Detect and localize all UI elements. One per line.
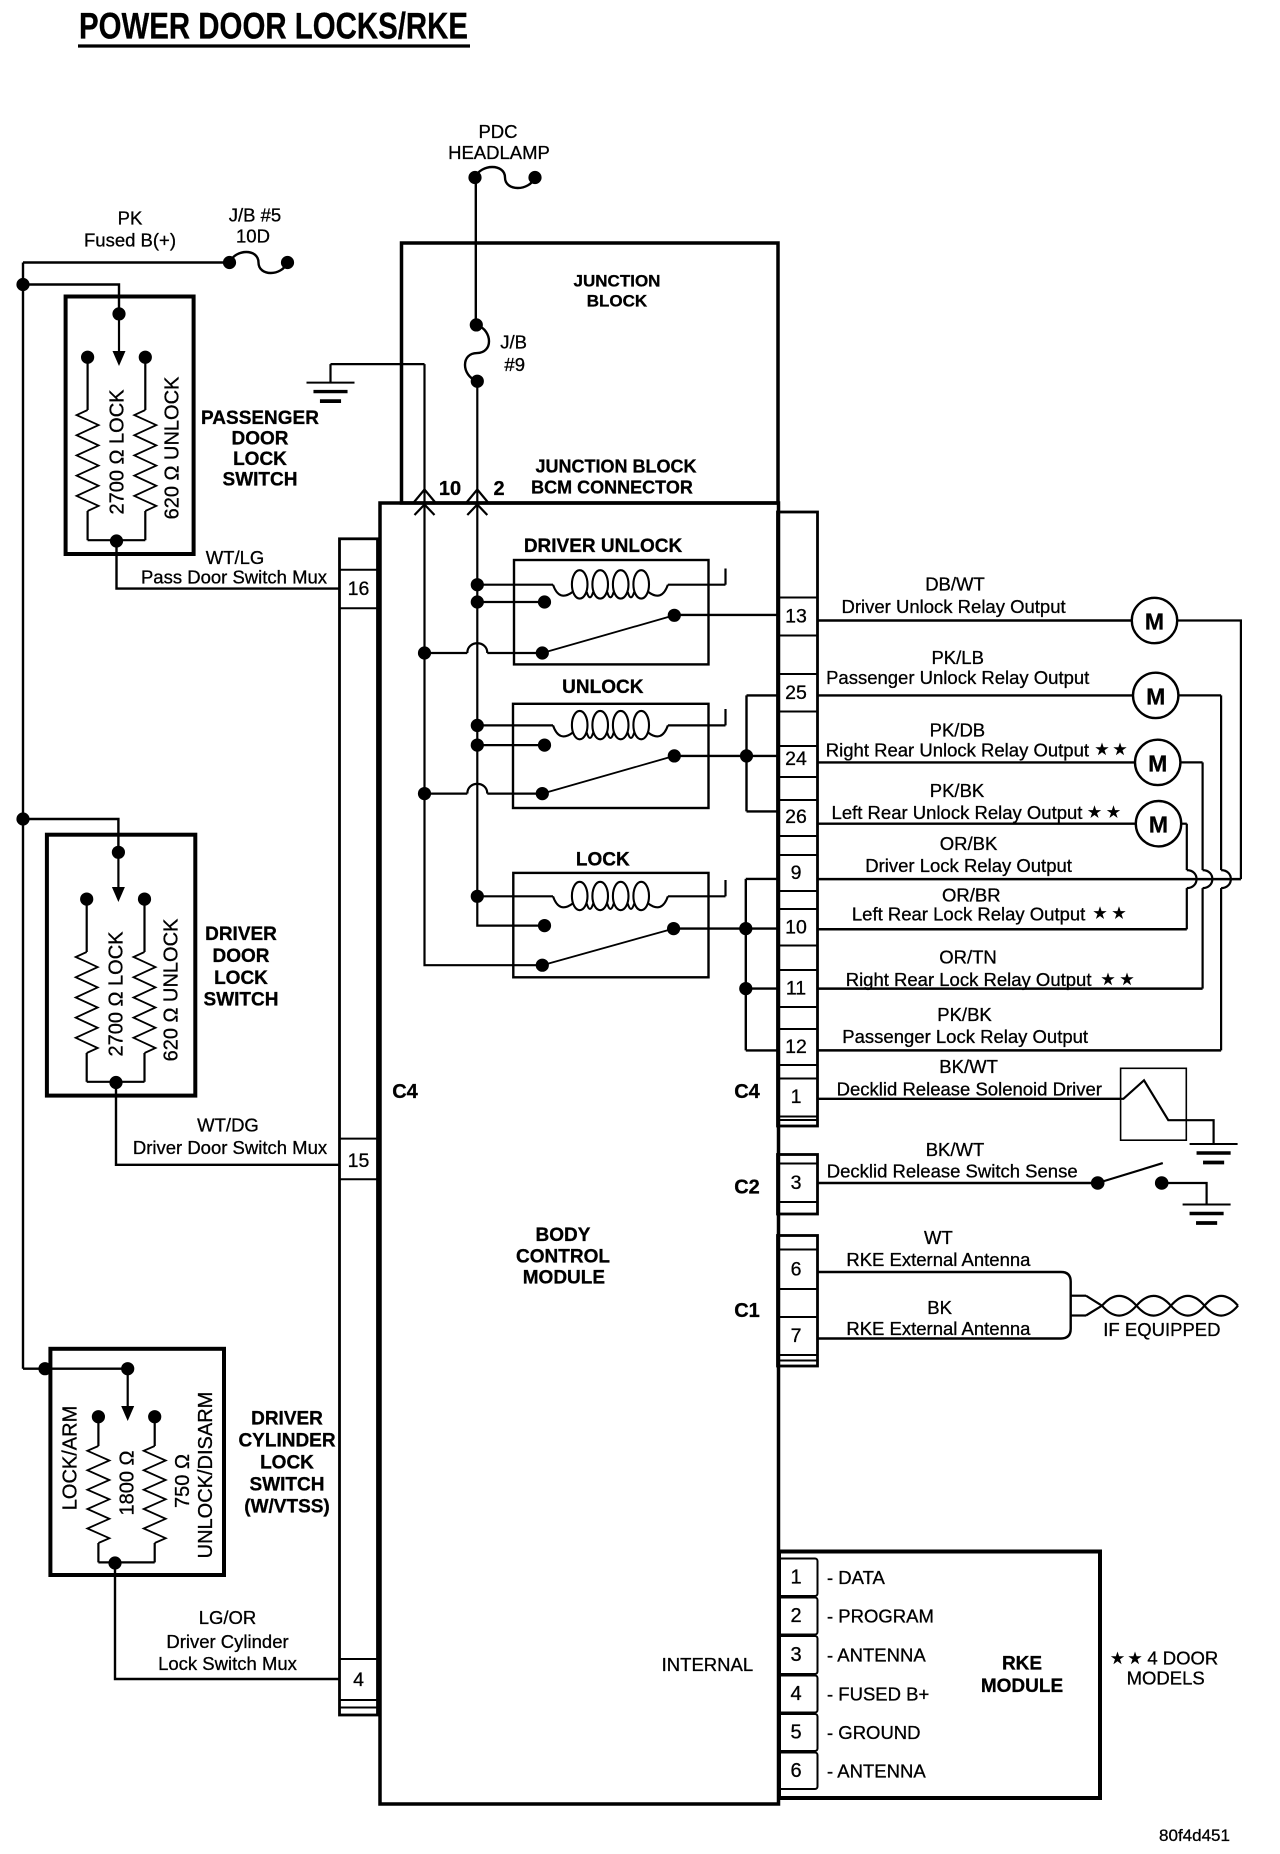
wire antenna loop pins 6-7 <box>818 1272 1071 1339</box>
label JUNCTION BLOCK BCM CONNECTOR <box>531 457 696 498</box>
pin 6 box (BCM C1) <box>778 1250 818 1290</box>
wire U2 output <box>674 755 746 757</box>
wire U1 pivot feed with hop over bus 2 <box>425 643 543 653</box>
svg-text:POWER DOOR LOCKS/RKE: POWER DOOR LOCKS/RKE <box>79 6 468 47</box>
node U2 pivot tap <box>418 787 431 800</box>
svg-text:7: 7 <box>791 1325 802 1347</box>
wire ground bus to pin 10 arrow <box>423 364 425 503</box>
svg-text:Driver Unlock Relay Output: Driver Unlock Relay Output <box>842 596 1066 617</box>
svg-text:PDC: PDC <box>478 121 517 142</box>
wire pin 13 to driver unlock motor <box>818 619 1132 621</box>
label DRIVER CYLINDER LOCK SWITCH (W/VTSS) <box>238 1409 335 1518</box>
label BODY CONTROL MODULE <box>516 1225 610 1288</box>
wiper arrow cylinder switch <box>121 1369 134 1421</box>
svg-text:Right Rear Lock Relay Output: Right Rear Lock Relay Output <box>846 969 1092 990</box>
svg-text:M: M <box>1146 683 1165 709</box>
node cylinder unlock resistor top <box>148 1410 161 1423</box>
pin 4 box <box>340 1659 378 1700</box>
svg-text:DB/WT: DB/WT <box>925 574 985 595</box>
label OR/BR <box>852 885 1085 925</box>
label OR/BK <box>865 833 1072 876</box>
switch box driver cylinder lock switch <box>50 1349 224 1575</box>
svg-text:- FUSED B+: - FUSED B+ <box>827 1684 929 1705</box>
wire pin 26 to left rear unlock motor <box>818 823 1136 825</box>
svg-text:INTERNAL: INTERNAL <box>662 1654 754 1675</box>
pin 1 box (BCM C4) <box>778 1079 818 1117</box>
node passenger unlock resistor top <box>139 351 152 364</box>
label PK/BK passenger lock <box>842 1004 1088 1047</box>
connector arrow 10 <box>414 478 461 515</box>
label 4 DOOR MODELS <box>1127 1648 1219 1689</box>
svg-text:C1: C1 <box>734 1300 760 1322</box>
svg-text:BK/WT: BK/WT <box>939 1056 998 1077</box>
label C4 right <box>734 1081 760 1103</box>
divider left column bottom <box>340 1707 378 1709</box>
svg-text:Left Rear Lock Relay Output: Left Rear Lock Relay Output <box>852 904 1085 925</box>
svg-text:DOOR: DOOR <box>213 946 270 967</box>
motor M3 right rear door lock motor <box>1135 740 1180 785</box>
svg-text:750 Ω: 750 Ω <box>172 1454 194 1508</box>
label Lock Switch Mux <box>158 1653 298 1674</box>
value label 620 ohm UNLOCK <box>162 376 184 519</box>
svg-text:BK: BK <box>927 1297 952 1318</box>
pin 9 box (BCM C4) <box>778 855 818 891</box>
label LG/OR <box>199 1607 257 1628</box>
svg-text:LOCK: LOCK <box>214 968 268 989</box>
divider C1 column bottom <box>778 1360 818 1362</box>
wire twisted pair stubs <box>1071 1296 1086 1316</box>
svg-text:5: 5 <box>790 1722 801 1744</box>
svg-text:IF EQUIPPED: IF EQUIPPED <box>1103 1319 1220 1340</box>
svg-text:RKE External Antenna: RKE External Antenna <box>846 1249 1031 1270</box>
node bus to driver switch <box>16 812 29 825</box>
svg-text:Passenger Unlock Relay Output: Passenger Unlock Relay Output <box>826 667 1089 688</box>
svg-text:3: 3 <box>790 1644 801 1666</box>
svg-text:LOCK: LOCK <box>260 1453 314 1474</box>
value label 620 ohm UNLOCK driver <box>161 918 183 1061</box>
svg-text:PASSENGER: PASSENGER <box>201 408 319 429</box>
node driver lock resistor top <box>80 893 93 906</box>
node U2 contact tap <box>471 739 484 752</box>
wire pin 3 decklid release switch sense <box>818 1182 1098 1184</box>
svg-text:SWITCH: SWITCH <box>204 989 279 1010</box>
wire WT/LG pass door switch mux <box>117 541 340 589</box>
relay U3 LOCK box <box>513 850 708 978</box>
wire M1 to pin 9 loop <box>1177 621 1241 880</box>
node U1 coil tap <box>471 578 484 591</box>
svg-text:SWITCH: SWITCH <box>250 1475 325 1496</box>
svg-text:LG/OR: LG/OR <box>199 1607 257 1628</box>
wire switch to ground <box>1162 1183 1207 1205</box>
svg-text:25: 25 <box>785 682 807 704</box>
label WT/LG <box>206 547 265 568</box>
svg-text:JUNCTION: JUNCTION <box>574 272 661 291</box>
svg-text:Driver Cylinder: Driver Cylinder <box>166 1631 288 1652</box>
wire pin 10 left rear lock relay output <box>818 928 1187 931</box>
node U1 contact tap <box>471 595 484 608</box>
switch arm relay U1 <box>536 609 681 660</box>
svg-text:DRIVER: DRIVER <box>251 1409 323 1430</box>
label DB/WT <box>842 574 1066 617</box>
switch decklid release <box>1091 1163 1169 1190</box>
svg-text:PK/BK: PK/BK <box>930 780 985 801</box>
connector column C2 outline <box>778 1155 818 1215</box>
svg-text:Pass Door Switch Mux: Pass Door Switch Mux <box>141 567 328 588</box>
label C1 right <box>734 1300 760 1322</box>
wire U2 pivot feed with hop over bus 2 <box>425 784 543 794</box>
motor M1 driver door lock motor <box>1132 598 1177 643</box>
ground G3 (decklid switch) <box>1183 1205 1231 1224</box>
pin 25 box (BCM C4) <box>778 674 818 712</box>
value label UNLOCK/DISARM <box>195 1392 217 1559</box>
svg-text:2700 Ω LOCK: 2700 Ω LOCK <box>106 931 128 1057</box>
switch arm relay U2 <box>536 749 681 800</box>
wire pin 24 to right rear unlock motor <box>818 761 1136 763</box>
wire U3 pivot feed <box>425 964 543 965</box>
stars 4 door models <box>1111 1652 1142 1665</box>
svg-text:RKE External Antenna: RKE External Antenna <box>846 1318 1031 1339</box>
svg-text:C2: C2 <box>734 1177 760 1199</box>
svg-text:10: 10 <box>439 478 461 500</box>
svg-text:Decklid Release Solenoid Drive: Decklid Release Solenoid Driver <box>837 1079 1102 1100</box>
switch arm relay U3 <box>536 922 681 972</box>
node bracket unlock junction <box>740 749 753 762</box>
stars left rear unlock <box>1088 805 1120 818</box>
svg-text:MODELS: MODELS <box>1127 1668 1205 1689</box>
wire PK feed horizontal <box>23 261 230 263</box>
stars right rear lock <box>1101 973 1133 986</box>
svg-text:PK: PK <box>118 208 143 229</box>
label PK/BK left rear unlock <box>832 780 1083 823</box>
node cylinder switch entry <box>38 1362 51 1375</box>
pin 15 box <box>340 1139 378 1180</box>
svg-text:JUNCTION BLOCK: JUNCTION BLOCK <box>536 457 697 477</box>
label J/B #9 <box>500 332 527 376</box>
node passenger switch feed <box>112 307 125 320</box>
twisted pair antenna <box>1086 1296 1238 1316</box>
inline connector J/B #5 <box>223 252 294 273</box>
svg-text:1: 1 <box>790 1566 801 1588</box>
wire M2 to pin 12 with hop <box>1178 695 1230 1050</box>
node passenger resistors junction <box>110 534 123 547</box>
node bracket lock junction pin11 <box>739 982 752 995</box>
svg-text:OR/TN: OR/TN <box>939 947 997 968</box>
part number 80f4d451 <box>1159 1826 1230 1845</box>
RKE pin 6 - ANTENNA <box>779 1753 927 1790</box>
relay U1 coil <box>477 569 725 599</box>
wiper arrow passenger switch <box>113 314 126 366</box>
svg-text:620 Ω UNLOCK: 620 Ω UNLOCK <box>162 376 184 519</box>
label BK/WT solenoid <box>837 1056 1102 1100</box>
svg-text:LOCK: LOCK <box>576 850 630 871</box>
RKE pin 2 - PROGRAM <box>779 1598 934 1635</box>
svg-text:Passenger Lock Relay Output: Passenger Lock Relay Output <box>842 1026 1088 1047</box>
svg-text:M: M <box>1149 812 1168 838</box>
relay U1 DRIVER UNLOCK box <box>514 536 709 664</box>
svg-text:DRIVER: DRIVER <box>205 924 277 945</box>
resistor 2700 ohm LOCK (passenger) <box>77 357 117 540</box>
label C4 left <box>392 1081 418 1103</box>
pin 7 box (BCM C1) <box>778 1317 818 1355</box>
connector column C1 outline <box>778 1236 818 1367</box>
node cylinder resistors junction <box>108 1556 121 1569</box>
svg-text:LOCK/ARM: LOCK/ARM <box>59 1406 81 1510</box>
svg-text:M: M <box>1148 750 1167 776</box>
svg-text:10: 10 <box>785 917 807 939</box>
relay U2 UNLOCK box <box>513 677 709 808</box>
value label 2700 ohm LOCK driver <box>106 931 128 1057</box>
node U3 coil tap <box>471 890 484 903</box>
svg-text:1: 1 <box>791 1086 802 1108</box>
wiper arrow driver switch <box>112 852 125 902</box>
svg-text:WT/DG: WT/DG <box>197 1115 259 1136</box>
svg-text:- ANTENNA: - ANTENNA <box>827 1760 926 1781</box>
pin 11 box (BCM C4) <box>778 970 818 1007</box>
wire M4 to pin 10 with hop <box>1181 824 1196 930</box>
ground G2 (solenoid) <box>1190 1144 1238 1163</box>
node cylinder switch feed <box>121 1362 134 1375</box>
label IF EQUIPPED <box>1103 1319 1220 1340</box>
svg-text:BODY: BODY <box>536 1225 591 1246</box>
svg-text:#9: #9 <box>504 354 525 375</box>
resistor 2700 ohm LOCK (driver) <box>76 899 116 1082</box>
label DRIVER DOOR LOCK SWITCH <box>204 924 279 1011</box>
label Driver Door Switch Mux <box>133 1137 328 1158</box>
wire pin 1 decklid release solenoid driver <box>818 1098 1121 1100</box>
svg-text:- GROUND: - GROUND <box>827 1722 921 1743</box>
svg-text:2: 2 <box>790 1605 801 1627</box>
RKE pin 5 - GROUND <box>779 1714 921 1751</box>
bracket unlock outputs <box>747 695 778 811</box>
svg-text:Lock Switch Mux: Lock Switch Mux <box>158 1653 298 1674</box>
pin 12 box (BCM C4) <box>778 1029 818 1065</box>
stars right rear unlock <box>1095 743 1126 756</box>
node passenger lock resistor top <box>81 351 94 364</box>
svg-text:26: 26 <box>785 806 807 828</box>
wire pin 12 passenger lock relay output <box>818 1049 1222 1052</box>
label INTERNAL <box>662 1654 754 1675</box>
svg-text:Driver Door Switch Mux: Driver Door Switch Mux <box>133 1137 328 1158</box>
svg-text:80f4d451: 80f4d451 <box>1159 1826 1230 1845</box>
svg-text:4 DOOR: 4 DOOR <box>1147 1648 1218 1669</box>
label Pass Door Switch Mux <box>141 567 328 588</box>
pin 3 box (BCM C2) <box>778 1164 818 1203</box>
svg-text:13: 13 <box>785 606 807 628</box>
svg-text:2700 Ω LOCK: 2700 Ω LOCK <box>107 389 129 515</box>
label J/B #5 10D <box>229 205 281 247</box>
svg-text:BLOCK: BLOCK <box>587 292 648 311</box>
svg-text:MODULE: MODULE <box>523 1267 605 1288</box>
wire branch to passenger door lock switch <box>23 285 119 314</box>
node cylinder lock resistor top <box>92 1410 105 1423</box>
svg-text:16: 16 <box>348 578 370 600</box>
resistor 1800 ohm LOCK/ARM <box>87 1417 115 1563</box>
svg-text:UNLOCK/DISARM: UNLOCK/DISARM <box>195 1392 217 1559</box>
svg-text:9: 9 <box>791 862 802 884</box>
wire branch to driver cylinder lock switch <box>23 1367 128 1369</box>
svg-text:OR/BR: OR/BR <box>942 885 1001 906</box>
wire pin 11 right rear lock relay output <box>818 987 1203 990</box>
pin 13 box (BCM C4) <box>778 598 818 636</box>
svg-text:C4: C4 <box>392 1081 418 1103</box>
wire WT/DG driver door switch mux <box>116 1083 340 1165</box>
svg-text:24: 24 <box>785 748 807 770</box>
wire U3 fixed contact <box>477 896 551 932</box>
svg-text:CONTROL: CONTROL <box>516 1247 610 1268</box>
svg-text:J/B: J/B <box>500 332 527 353</box>
pin 10 box (BCM C4) <box>778 909 818 946</box>
svg-text:Left Rear Unlock Relay Output: Left Rear Unlock Relay Output <box>832 802 1083 823</box>
resistor 620 ohm UNLOCK (passenger) <box>117 357 157 540</box>
svg-text:4: 4 <box>790 1683 801 1705</box>
svg-text:Decklid Release Switch Sense: Decklid Release Switch Sense <box>827 1161 1078 1182</box>
svg-text:2: 2 <box>493 478 504 500</box>
svg-text:Fused B(+): Fused B(+) <box>84 230 176 251</box>
label RKE MODULE <box>981 1654 1063 1698</box>
svg-text:CYLINDER: CYLINDER <box>238 1431 335 1452</box>
resistor 750 ohm UNLOCK/DISARM <box>115 1417 166 1563</box>
svg-text:BCM CONNECTOR: BCM CONNECTOR <box>531 478 693 498</box>
svg-text:HEADLAMP: HEADLAMP <box>448 142 550 163</box>
RKE pin 3 - ANTENNA <box>779 1636 927 1674</box>
svg-text:12: 12 <box>785 1036 807 1058</box>
pin 26 box (BCM C4) <box>778 800 818 836</box>
switch box passenger door lock switch <box>66 297 194 555</box>
svg-text:PK/BK: PK/BK <box>937 1004 992 1025</box>
label JUNCTION BLOCK <box>574 272 661 311</box>
svg-text:OR/BK: OR/BK <box>940 833 998 854</box>
motor M4 left rear door lock motor <box>1136 801 1181 846</box>
right connector column C4 outline <box>778 512 818 1126</box>
svg-text:1800 Ω: 1800 Ω <box>117 1450 139 1515</box>
label OR/TN <box>846 947 1092 991</box>
connector arrow 2 <box>467 478 505 515</box>
junction block box <box>402 243 779 503</box>
svg-text:SWITCH: SWITCH <box>223 470 298 491</box>
value label LOCK/ARM <box>59 1406 81 1510</box>
svg-text:- PROGRAM: - PROGRAM <box>827 1606 934 1627</box>
relay U3 coil <box>477 880 725 910</box>
wire U1 fixed contact <box>477 595 551 608</box>
relay U2 coil <box>477 709 725 739</box>
wire U2 fixed contact <box>477 739 551 752</box>
svg-text:MODULE: MODULE <box>981 1676 1063 1697</box>
svg-text:DRIVER UNLOCK: DRIVER UNLOCK <box>524 536 683 557</box>
svg-text:M: M <box>1145 609 1164 635</box>
wire left B(+) bus vertical <box>22 263 24 1369</box>
svg-text:(W/VTSS): (W/VTSS) <box>244 1497 330 1518</box>
wire M3 to pin 11 with hop <box>1180 762 1212 988</box>
ground G1 (junction block) <box>307 364 425 401</box>
pin 16 box <box>340 570 378 609</box>
label PASSENGER DOOR LOCK SWITCH <box>201 408 319 491</box>
pin 24 box (BCM C4) <box>778 746 818 777</box>
svg-text:11: 11 <box>786 978 806 1000</box>
wire U1 output to pin 13 <box>674 614 777 616</box>
svg-text:6: 6 <box>791 1259 802 1281</box>
wire LG/OR driver cylinder lock switch mux <box>115 1563 340 1679</box>
svg-text:RKE: RKE <box>1002 1654 1042 1675</box>
switch box driver door lock switch <box>47 835 195 1096</box>
svg-text:DOOR: DOOR <box>232 429 289 450</box>
resistor 620 ohm UNLOCK (driver) <box>116 899 156 1082</box>
svg-text:WT/LG: WT/LG <box>206 547 265 568</box>
svg-text:WT: WT <box>924 1227 953 1248</box>
inline connector PDC HEADLAMP <box>468 167 541 188</box>
node U2 coil tap <box>471 719 484 732</box>
inline connector J/B #9 <box>465 318 489 388</box>
body control module box <box>380 503 779 1804</box>
motor M2 passenger door lock motor <box>1133 673 1178 718</box>
label C2 right <box>734 1177 760 1199</box>
value label 1800 ohm <box>117 1450 139 1515</box>
svg-text:4: 4 <box>353 1669 364 1691</box>
svg-text:10D: 10D <box>236 226 270 247</box>
wire pin 9 driver lock relay output <box>818 878 1241 881</box>
RKE module box <box>779 1552 1100 1799</box>
value label 2700 ohm LOCK <box>107 389 129 515</box>
RKE pin 4 - FUSED B+ <box>779 1676 930 1713</box>
svg-text:- DATA: - DATA <box>827 1567 886 1588</box>
label PK Fused B(+) <box>84 208 176 251</box>
svg-text:LOCK: LOCK <box>233 449 287 470</box>
svg-text:BK/WT: BK/WT <box>926 1139 985 1160</box>
svg-text:PK/LB: PK/LB <box>931 647 983 668</box>
svg-text:Driver Lock Relay Output: Driver Lock Relay Output <box>865 855 1072 876</box>
label BK/WT switch sense <box>827 1139 1078 1182</box>
divider right column C4 bottom <box>778 1119 818 1121</box>
wire PDC to J/B 9 <box>475 178 477 325</box>
label PK/LB <box>826 647 1089 688</box>
node driver resistors junction <box>109 1076 122 1089</box>
svg-text:620 Ω UNLOCK: 620 Ω UNLOCK <box>161 918 183 1061</box>
wire bus 10 to relay pivots <box>423 503 425 964</box>
svg-text:Right Rear Unlock Relay Output: Right Rear Unlock Relay Output <box>826 740 1089 761</box>
node driver unlock resistor top <box>138 893 151 906</box>
svg-text:3: 3 <box>791 1172 802 1194</box>
title POWER DOOR LOCKS/RKE <box>78 6 470 47</box>
node bracket lock junction pin10 <box>739 922 752 935</box>
solenoid decklid release <box>1121 1068 1214 1144</box>
bracket lock outputs <box>746 879 778 1051</box>
svg-text:UNLOCK: UNLOCK <box>562 677 644 698</box>
node driver switch feed <box>112 846 125 859</box>
RKE pin 1 - DATA <box>779 1559 886 1597</box>
svg-text:6: 6 <box>790 1760 801 1782</box>
label PDC HEADLAMP <box>448 121 550 163</box>
label WT/DG <box>197 1115 259 1136</box>
node U1 pivot tap <box>418 646 431 659</box>
label BK antenna <box>846 1297 1031 1339</box>
wire bus 2 to relay coils <box>476 381 478 896</box>
svg-text:J/B #5: J/B #5 <box>229 205 281 226</box>
stars left rear lock <box>1093 906 1125 919</box>
node bus to passenger switch <box>16 278 29 291</box>
wire U3 output <box>674 927 746 929</box>
label WT antenna <box>846 1227 1031 1270</box>
wire pin 25 to passenger unlock motor <box>818 694 1134 696</box>
value label 750 ohm <box>172 1454 194 1508</box>
wire branch to driver door lock switch <box>23 819 118 852</box>
label Driver Cylinder <box>166 1631 288 1652</box>
svg-text:- ANTENNA: - ANTENNA <box>827 1645 926 1666</box>
svg-text:PK/DB: PK/DB <box>930 720 986 741</box>
svg-text:15: 15 <box>348 1150 370 1172</box>
label PK/DB <box>826 720 1089 761</box>
left connector column outline <box>340 539 378 1715</box>
svg-text:C4: C4 <box>734 1081 760 1103</box>
